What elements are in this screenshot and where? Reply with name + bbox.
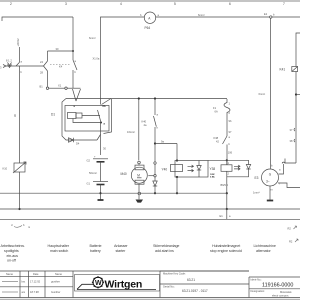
- title block machine key: [160, 271, 249, 293]
- svg-text:bw.: bw.: [22, 280, 26, 284]
- svg-text:Arbeitsscheinw.: Arbeitsscheinw.: [1, 244, 25, 248]
- socket terminal 37: [290, 128, 296, 132]
- battery G1: [87, 182, 109, 186]
- node K10 bus2 junction: [18, 208, 20, 210]
- wire alternator feed: [270, 18, 272, 169]
- wire bus 31: [0, 208, 300, 210]
- svg-text:am: am: [22, 291, 26, 294]
- svg-text:alternator: alternator: [256, 249, 271, 253]
- wire Y40 feed drop: [176, 144, 178, 161]
- wire lamp circuit drop: [19, 66, 21, 163]
- legend col4 starter: [114, 244, 128, 253]
- wire X1 to funnel: [67, 87, 80, 89]
- node 9a junction: [154, 142, 156, 144]
- legend col5 fault system: [153, 244, 179, 253]
- svg-text:8A: 8A: [103, 105, 106, 108]
- svg-text:W: W: [95, 280, 102, 287]
- main switch S1 pole1: [40, 60, 48, 75]
- svg-text:main switch: main switch: [50, 249, 68, 253]
- svg-text:R2: R2: [288, 227, 292, 231]
- socket X7 arc: [282, 162, 285, 163]
- svg-text:battery: battery: [90, 249, 101, 253]
- legend col6 stop solenoid: [210, 244, 242, 253]
- wire D1 output down: [100, 123, 102, 156]
- diode Y40 suppression: [197, 161, 201, 178]
- svg-text:E1: E1: [264, 12, 268, 16]
- svg-text:G2: G2: [87, 159, 91, 163]
- breaker K10: [3, 162, 27, 173]
- svg-text:63.21.0197 - 0117: 63.21.0197 - 0117: [182, 289, 208, 293]
- wire pole2 to X1 node: [72, 70, 74, 89]
- svg-text:add.start ins: add.start ins: [155, 249, 174, 253]
- svg-text:M: M: [137, 173, 140, 177]
- logo Wirtgen: [75, 271, 161, 298]
- wire K10 to bus2: [19, 172, 21, 209]
- svg-text:7: 7: [283, 2, 285, 6]
- svg-text:E1: E1: [220, 214, 224, 218]
- switch contact S2 blade: [16, 62, 20, 66]
- svg-text:spotlights: spotlights: [4, 249, 19, 253]
- wire bus from P64 to E1: [156, 16, 270, 18]
- svg-text:3~: 3~: [266, 180, 270, 184]
- wire bus 30 left segment: [2, 17, 73, 21]
- svg-text:4: 4: [120, 2, 122, 6]
- svg-text:K4: K4: [59, 65, 63, 69]
- svg-text:6: 6: [229, 2, 231, 6]
- wire Y38 to bus2: [226, 193, 228, 209]
- relay D1 enclosure chamfer bottom right: [97, 135, 101, 141]
- svg-text:3: 3: [65, 2, 67, 6]
- title block left table: [0, 271, 300, 298]
- relay contact K38: [214, 136, 231, 146]
- wire drop from bus30 at x73: [72, 17, 74, 60]
- note sheet mark right: [288, 226, 297, 231]
- note sheet mark right2: [289, 239, 298, 244]
- ammeter P64: [140, 12, 160, 30]
- node Y40 top junction: [176, 159, 178, 161]
- wire lamp feed horizontal: [6, 65, 44, 67]
- legend col7 alternator: [254, 244, 276, 253]
- relay K41 coil: [280, 67, 298, 72]
- note revision mark: [11, 223, 30, 229]
- relay D1 contact blade: [98, 110, 102, 123]
- relay D1 enclosure outline: [62, 99, 97, 141]
- node K41 junction: [295, 93, 297, 95]
- node Y38 bus2 junction: [226, 208, 228, 210]
- svg-text:63.21: 63.21: [187, 278, 195, 282]
- legend col2 main switch: [48, 244, 70, 253]
- svg-text:6mm²: 6mm²: [198, 13, 205, 17]
- node M40 50 terminal circle: [154, 162, 156, 164]
- svg-text:5: 5: [174, 2, 176, 6]
- svg-text:17.12.92: 17.12.92: [30, 280, 41, 284]
- svg-text:on-off: on-off: [7, 259, 17, 263]
- node starter feed bus junction: [138, 97, 140, 99]
- svg-text:Serial No.:: Serial No.:: [163, 285, 175, 289]
- wire K41 down: [295, 72, 297, 164]
- relay D1 body box: [65, 106, 109, 132]
- node B1 terminal: [40, 85, 49, 90]
- ground chassis bar alternator: [267, 200, 273, 202]
- svg-text:Anlasser: Anlasser: [114, 244, 128, 248]
- node M40 bus1 terminal circle: [138, 192, 141, 195]
- svg-text:Motorelek.: Motorelek.: [280, 290, 292, 294]
- wire K41 to socket row: [285, 159, 296, 164]
- node battery bus1 junction: [99, 192, 101, 194]
- svg-text:0.8A: 0.8A: [210, 176, 215, 179]
- wire alternator W out: [278, 183, 300, 188]
- node solenoid feed bus junction: [154, 97, 156, 99]
- wire terminal 28 down to B1: [47, 71, 49, 87]
- node Y38 bus1 junction: [226, 192, 228, 194]
- wire solenoid top link to Y40: [208, 159, 227, 161]
- solenoid Y38 arrows: [234, 165, 240, 170]
- solenoid Y40 coil: [171, 165, 183, 172]
- svg-text:8 1 2: 8 1 2: [6, 59, 12, 63]
- svg-text:m: m: [28, 226, 30, 229]
- ground chassis bar battery: [98, 199, 104, 201]
- svg-text:6mm²: 6mm²: [89, 36, 96, 40]
- diode D4: [69, 138, 80, 146]
- svg-text:stop engine solenoid: stop engine solenoid: [210, 249, 242, 253]
- wire B1 to X1: [49, 87, 65, 89]
- solenoid Y40 assembly box: [175, 161, 208, 178]
- svg-text:Y38: Y38: [210, 167, 216, 171]
- svg-text:106: 106: [228, 151, 233, 155]
- svg-text:Hubabstellmagnet: Hubabstellmagnet: [212, 244, 240, 248]
- diode starter suppression: [153, 181, 157, 186]
- wire diode top: [154, 177, 156, 181]
- wire 9a horizontal: [155, 143, 177, 145]
- svg-text:Date: Date: [33, 272, 39, 276]
- sheet top border: [0, 0, 300, 2]
- wire F1 to K38: [226, 115, 228, 137]
- svg-text:1mm²: 1mm²: [253, 191, 260, 195]
- wire M40 ground stub: [138, 195, 140, 200]
- node X1 terminal: [58, 84, 67, 90]
- wire Y38 coil bottom: [226, 171, 228, 193]
- wire bus 31a ground rail: [0, 192, 227, 194]
- main switch S1 pole2: [73, 60, 77, 74]
- wire terminal 24 up: [47, 51, 49, 61]
- battery G2: [87, 156, 109, 163]
- legend col3 battery: [90, 244, 102, 253]
- wire solenoid feed drop: [154, 99, 156, 116]
- node D1 contact junction: [100, 122, 102, 124]
- svg-text:16mm²: 16mm²: [127, 130, 135, 134]
- sheet inner border bottom: [0, 218, 300, 220]
- wire stub to border: [226, 209, 228, 219]
- svg-text:K41: K41: [280, 68, 286, 72]
- wire bus 30a over D1 to F1 column: [66, 98, 227, 100]
- svg-text:B1: B1: [40, 85, 44, 89]
- fuse F1: [213, 99, 231, 115]
- relay contact K40: [142, 114, 159, 130]
- wire diode to bus1: [154, 186, 156, 193]
- svg-text:Y40: Y40: [162, 168, 168, 172]
- starter motor M40: [121, 161, 148, 184]
- node Y40 bus1 junction: [176, 192, 178, 194]
- svg-text:M40: M40: [121, 172, 127, 176]
- svg-text:m: m: [271, 189, 273, 192]
- svg-text:D1: D1: [51, 113, 55, 117]
- wire Y38 coil top: [226, 160, 228, 165]
- svg-text:6mm²: 6mm²: [259, 92, 266, 96]
- node diode bus1 junction: [154, 192, 156, 194]
- wire stub edge: [296, 94, 300, 96]
- svg-text:P64: P64: [145, 26, 151, 30]
- svg-text:starter: starter: [116, 249, 127, 253]
- wire motor right link: [148, 175, 154, 177]
- svg-text:Machine Key Code:: Machine Key Code:: [163, 272, 186, 276]
- svg-text:Gunther: Gunther: [51, 290, 61, 294]
- connector X plug pair: [6, 59, 12, 68]
- wire battery minus to bus: [100, 185, 102, 200]
- svg-text:119166-0000: 119166-0000: [262, 283, 293, 289]
- svg-text:Designation:: Designation:: [251, 289, 266, 293]
- svg-text:2: 2: [10, 2, 12, 6]
- svg-text:gunther: gunther: [51, 280, 60, 284]
- svg-text:electr compon.: electr compon.: [272, 293, 289, 297]
- wire Y40 to bus1: [176, 177, 178, 193]
- svg-text:R2: R2: [289, 240, 293, 244]
- svg-text:B6/9 4: B6/9 4: [221, 183, 229, 187]
- svg-text:Lichtmaschine: Lichtmaschine: [254, 244, 276, 248]
- wire funnel into D1 terminal 30: [73, 89, 81, 101]
- wire alternator D+ out: [279, 164, 284, 174]
- svg-text:X1 0a: X1 0a: [93, 57, 100, 61]
- wire chamfer D1 30A to bus: [102, 99, 112, 105]
- title block ident: [249, 277, 300, 298]
- svg-text:6A: 6A: [215, 110, 218, 114]
- wire coil to contact: [82, 115, 100, 117]
- svg-text:Batterie: Batterie: [90, 244, 102, 248]
- wire feed +30/12: [19, 47, 21, 62]
- diode Y38 suppression loop: [227, 160, 251, 177]
- wire bus E1 to sheet edge: [272, 16, 300, 18]
- wire K41 feed: [296, 33, 300, 67]
- svg-text:18.7.98: 18.7.98: [30, 290, 39, 294]
- svg-text:G1: G1: [87, 182, 91, 186]
- svg-text:Störmeldeanlage: Störmeldeanlage: [153, 244, 179, 248]
- wire M40 top feed: [138, 164, 140, 165]
- wire 30 link horizontal: [48, 50, 74, 52]
- svg-text:Ident-No.:: Ident-No.:: [251, 277, 263, 281]
- wire coil bottom loop: [73, 119, 101, 123]
- svg-text:Hauptschalter: Hauptschalter: [48, 244, 70, 248]
- wire K40 to node 9a: [154, 127, 156, 144]
- svg-text:Name: Name: [6, 272, 13, 276]
- wire between batteries: [100, 162, 102, 182]
- wire bus 30 right segment: [101, 17, 145, 105]
- wire M40 bottom to bus1: [138, 184, 140, 192]
- node M40 right terminal circle: [154, 175, 156, 177]
- svg-text:Wirtgen: Wirtgen: [105, 278, 143, 290]
- svg-text:ein-aus: ein-aus: [7, 254, 19, 258]
- socket terminal 38: [290, 139, 296, 143]
- svg-text:Name: Name: [55, 272, 62, 276]
- wire 50 to solenoid: [154, 164, 156, 174]
- svg-text:E3: E3: [255, 176, 259, 180]
- svg-text:D4: D4: [76, 142, 80, 146]
- legend col1 spotlights: [1, 244, 25, 263]
- solenoid Y40 arrows: [188, 165, 194, 172]
- svg-text:K10: K10: [3, 167, 8, 171]
- node solenoid feed junction: [226, 159, 228, 161]
- solenoid Y38 coil: [210, 161, 233, 178]
- wire alternator ground stub: [269, 186, 271, 200]
- svg-text:+30/12: +30/12: [16, 38, 20, 47]
- node Y40 bottom junction: [176, 176, 178, 178]
- ground chassis M40: [136, 200, 144, 203]
- relay D1 enclosure right edge: [104, 99, 112, 134]
- wire M40 terminal 50: [154, 144, 156, 162]
- svg-text:X1: X1: [58, 84, 62, 88]
- wire K38 to Y38 node: [226, 145, 228, 165]
- alternator E3: [255, 164, 282, 192]
- relay D1 coil: [68, 113, 77, 119]
- sheet bottom edge: [0, 298, 300, 300]
- relay D1 coil second box: [76, 113, 82, 118]
- node junction 30 link: [72, 50, 74, 52]
- wire starter feed drop: [138, 99, 140, 161]
- svg-text:50mm²: 50mm²: [89, 171, 97, 175]
- off-page arrow left: [0, 65, 6, 70]
- linkage dashes: [50, 64, 71, 66]
- node E1 terminal: [264, 12, 275, 18]
